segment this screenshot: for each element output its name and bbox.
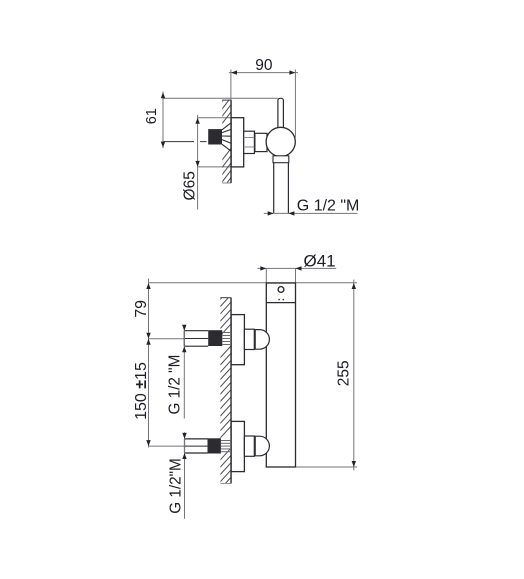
threaded inlet nut (top view) — [208, 129, 222, 144]
svg-text:90: 90 — [255, 57, 273, 74]
dimension 255 (body height) — [336, 280, 356, 471]
bottom inlet dome nut — [255, 436, 269, 456]
flange of top inlet (bottom view) — [231, 315, 244, 365]
flange of bottom inlet (bottom view) — [231, 421, 244, 471]
dimension Ø41 (body diameter) — [258, 252, 337, 284]
bottom inlet thread lines into wall — [221, 441, 231, 452]
bottom inlet pipe with thread — [185, 439, 208, 453]
screw dots on body — [278, 299, 280, 301]
svg-text:255: 255 — [336, 360, 353, 386]
svg-text:Ø41: Ø41 — [304, 252, 336, 271]
dimension G 1/2 M (outlet thread, top view) — [264, 197, 360, 215]
top inlet collar — [244, 329, 254, 349]
dimension 90 (wall to handle front) — [229, 57, 298, 138]
thread cone lines into wall — [222, 123, 231, 151]
svg-text:61: 61 — [144, 108, 160, 124]
diverter knob circle on body top — [278, 287, 284, 293]
wall section (top view) with hatching — [222, 89, 232, 190]
svg-text:G 1/2"M: G 1/2"M — [168, 458, 185, 514]
dimension G 1/2 M bottom inlet — [168, 432, 187, 518]
extension line top inlet center — [149, 338, 185, 340]
dimension chain 79 / 150 ±15 (left) — [133, 279, 151, 448]
dimension Ø65 (flange diameter) — [182, 115, 232, 210]
top inlet pipe with thread — [184, 331, 208, 347]
wall section (bottom view) with hatching — [220, 287, 232, 497]
bottom inlet nut (black) — [208, 438, 221, 453]
outlet collar under body (top view) — [273, 156, 289, 163]
mixer body column (bottom view) — [266, 283, 295, 467]
top inlet thread lines into wall — [222, 333, 231, 345]
svg-text:G 1/2 "M: G 1/2 "M — [297, 197, 360, 214]
handle lever (top view) — [278, 98, 284, 131]
extension line body bottom — [296, 466, 358, 468]
dimension 61 (handle top to center) — [144, 92, 165, 149]
cartridge collar with threads (top view) — [244, 131, 255, 153]
top inlet nut (black) — [208, 330, 222, 346]
outlet pipe (top view) — [274, 163, 289, 214]
svg-text:150 ±15: 150 ±15 — [133, 362, 150, 420]
top inlet dome nut — [255, 330, 269, 350]
svg-text:79: 79 — [133, 300, 150, 318]
wall flange / escutcheon (top view) — [231, 118, 244, 167]
mixer body circle (top view) — [266, 127, 295, 156]
handle-top reference line — [163, 97, 278, 99]
svg-text:G 1/2 "M: G 1/2 "M — [167, 355, 184, 415]
dimension G 1/2 M top inlet — [167, 325, 187, 419]
extension line bottom inlet center — [149, 445, 185, 447]
extension line body top — [149, 282, 358, 284]
svg-text:Ø65: Ø65 — [182, 171, 199, 200]
bottom inlet collar — [244, 436, 254, 456]
valve body neck (top view) — [255, 133, 267, 151]
center line of inlet — [163, 141, 194, 143]
